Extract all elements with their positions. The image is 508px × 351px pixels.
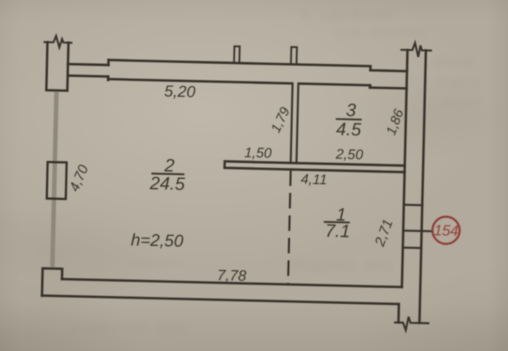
window line left (glazing) <box>52 91 56 267</box>
svg-text:5,20: 5,20 <box>164 83 196 101</box>
boundary dashed rooms 1-2 <box>288 170 291 284</box>
vent tick 2 <box>291 47 297 64</box>
svg-text:3: 3 <box>346 100 356 120</box>
svg-text:7,78: 7,78 <box>217 267 247 285</box>
bleed-through text top right <box>302 6 394 22</box>
wall bottom bottom face <box>42 296 399 323</box>
break symbol top-right cap <box>401 43 431 58</box>
svg-text:4.5: 4.5 <box>336 119 362 140</box>
wall bottom-left corner <box>42 268 62 296</box>
break symbol bottom-right cap <box>395 316 429 330</box>
wall right inner face <box>402 50 408 287</box>
svg-text:1,50: 1,50 <box>244 144 272 161</box>
bleed-through text bottom left <box>70 319 188 335</box>
wall top right section faces <box>370 70 407 88</box>
wall top main bottom face <box>108 79 370 85</box>
svg-text:2,71: 2,71 <box>371 217 396 249</box>
svg-text:154: 154 <box>434 222 459 240</box>
wall right outer face <box>419 50 425 323</box>
apartment number circle <box>432 216 460 244</box>
svg-text:7.1: 7.1 <box>325 221 350 242</box>
svg-text:h=2,50: h=2,50 <box>131 230 184 250</box>
vent tick 1 <box>234 46 240 63</box>
bleed-through text right margin row 2 <box>436 74 482 89</box>
room 3 underline <box>336 118 362 121</box>
svg-text:1,79: 1,79 <box>268 104 293 135</box>
svg-text:1,86: 1,86 <box>383 107 406 137</box>
radiator pier left <box>47 162 67 199</box>
wall interior horizontal faces <box>225 161 405 172</box>
wall between rooms 2 and 3 <box>291 83 299 163</box>
wall top main top face <box>109 60 371 66</box>
wall right panel tick B <box>403 247 421 249</box>
svg-text:4,70: 4,70 <box>66 162 92 194</box>
bleed-through text top right row 2 <box>332 24 427 39</box>
wall pier top-left outline <box>46 42 68 90</box>
break symbol top-left <box>44 36 71 48</box>
leader line to apartment number <box>403 230 432 233</box>
wall jog at x368 <box>369 66 372 87</box>
room 2 underline <box>151 173 184 176</box>
wall bottom top face <box>62 279 402 287</box>
svg-text:2,50: 2,50 <box>335 146 364 163</box>
wall step at x106 <box>107 60 110 80</box>
wall right panel tick A <box>404 204 422 206</box>
wire top wall thin segment faces <box>68 64 109 76</box>
room 1 underline <box>324 221 350 224</box>
bleed-through text middle right <box>292 257 396 274</box>
svg-text:24.5: 24.5 <box>149 173 186 194</box>
bleed-through text right margin <box>434 54 474 69</box>
bleed-through text left middle <box>130 254 185 269</box>
svg-text:4,11: 4,11 <box>301 171 328 188</box>
